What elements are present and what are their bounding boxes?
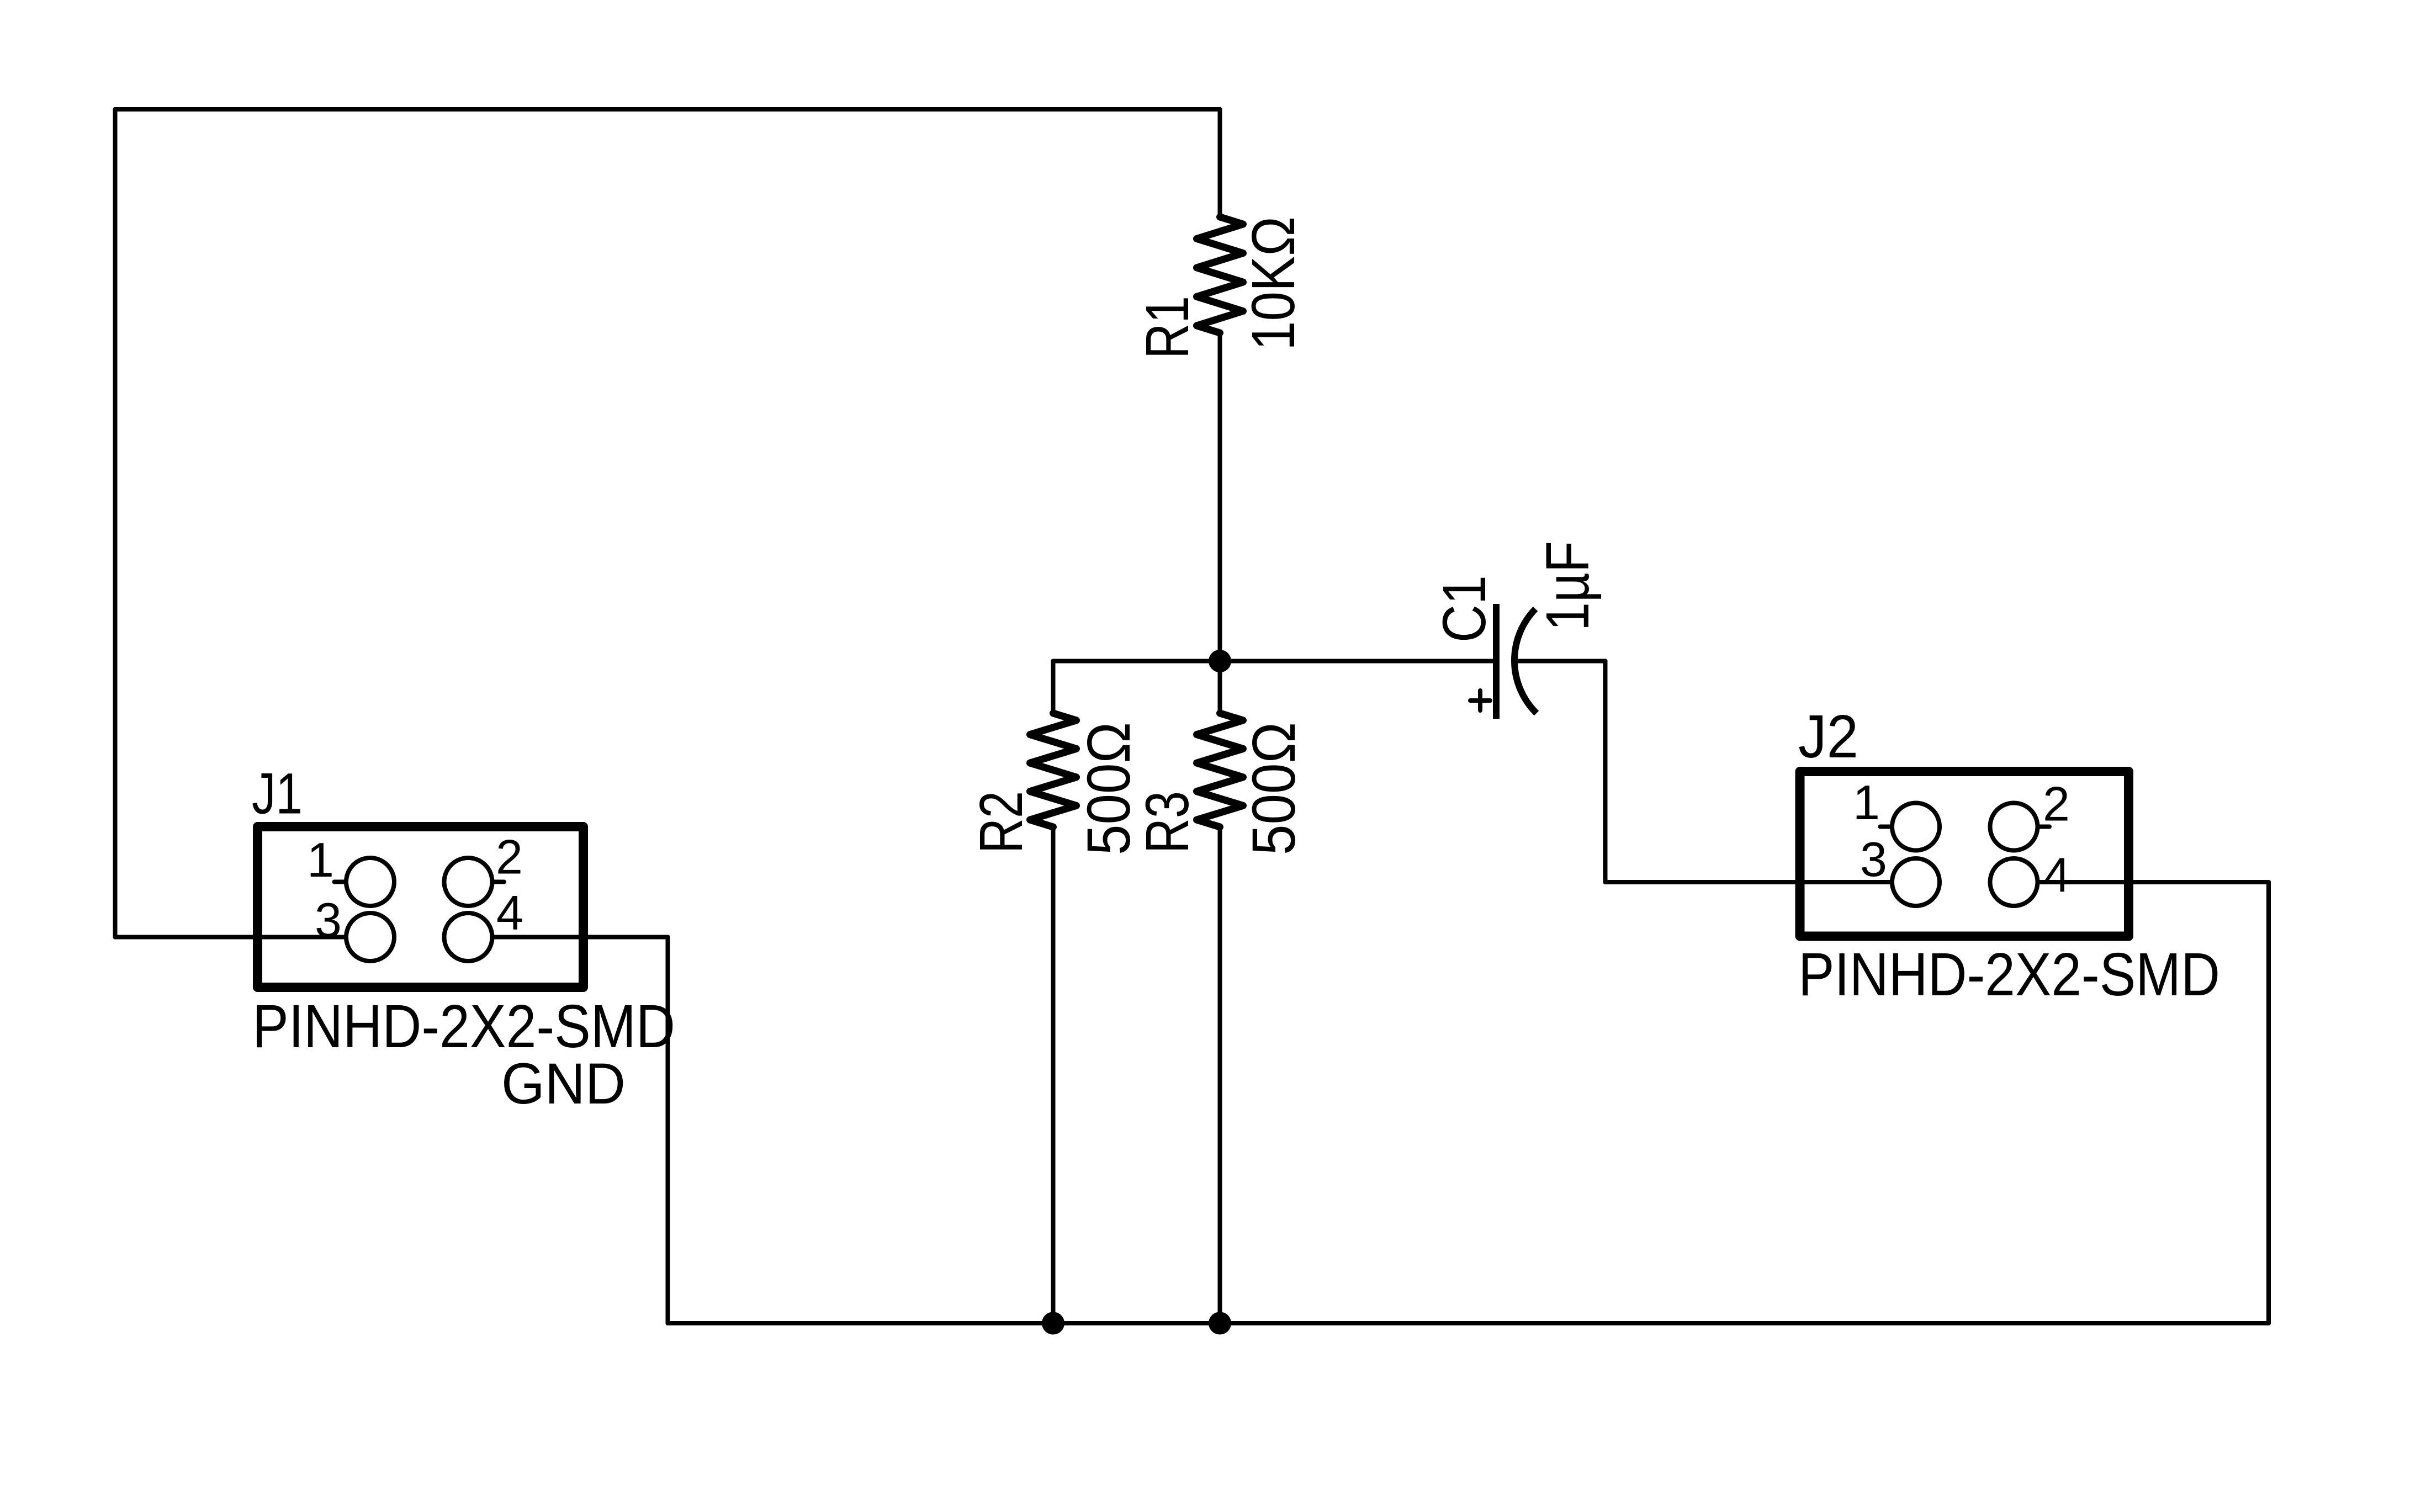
wire into J1 pin 3 — [115, 935, 347, 940]
svg-text:10KΩ: 10KΩ — [1239, 216, 1307, 351]
J2 pin 1 circle — [1892, 803, 1940, 851]
J1 pin 2 stub — [492, 880, 505, 884]
svg-text:500Ω: 500Ω — [1075, 722, 1143, 855]
wire J1 pin4 vertical down — [666, 937, 670, 1324]
capacitor C1 curved plate — [1514, 609, 1537, 713]
connector J1 body — [258, 827, 584, 988]
J1 pin 2 circle — [444, 858, 492, 906]
svg-text:2: 2 — [2043, 777, 2070, 831]
J1 pin 1 stub — [335, 880, 347, 884]
svg-text:PINHD-2X2-SMD: PINHD-2X2-SMD — [1798, 941, 2220, 1009]
svg-text:1: 1 — [1853, 775, 1880, 830]
svg-text:R1: R1 — [1133, 296, 1201, 359]
wire R2 top lead — [1051, 661, 1056, 714]
svg-text:4: 4 — [2043, 848, 2070, 903]
svg-text:PINHD-2X2-SMD: PINHD-2X2-SMD — [252, 993, 675, 1060]
J2 pin 3 circle — [1892, 858, 1940, 906]
wire down from C1 to J2 pin3 row — [1603, 661, 1608, 883]
wire R2 bottom lead — [1051, 827, 1056, 1323]
J1 pin 4 circle — [444, 913, 492, 961]
J2 pin 1 stub — [1880, 825, 1893, 829]
svg-text:J2: J2 — [1798, 703, 1858, 771]
resistor R3 zigzag — [1197, 713, 1243, 827]
svg-text:R3: R3 — [1133, 791, 1201, 853]
svg-text:1: 1 — [307, 832, 334, 887]
J2 pin 2 circle — [1990, 803, 2038, 851]
junction dot R3 / bottom net — [1209, 1312, 1231, 1335]
J2 pin 4 circle — [1990, 858, 2038, 906]
svg-text:500Ω: 500Ω — [1240, 722, 1308, 855]
wire R3 bottom lead — [1218, 827, 1222, 1323]
svg-text:3: 3 — [315, 893, 342, 947]
connector J2 body — [1800, 772, 2129, 937]
junction dot R2 / bottom net — [1042, 1312, 1064, 1335]
wire R1 bottom lead to node — [1218, 333, 1222, 661]
J1 pin 1 circle — [346, 858, 394, 906]
wire R3 top lead — [1218, 661, 1222, 714]
wire R1 top lead — [1218, 109, 1222, 217]
resistor R1 zigzag — [1197, 217, 1243, 333]
wire from J1 pin 4 — [492, 935, 668, 940]
svg-text:4: 4 — [496, 885, 523, 940]
junction dot at node A (R1/R3/C1) — [1209, 650, 1231, 672]
svg-text:J1: J1 — [252, 762, 303, 826]
wire bottom horizontal — [668, 1321, 2269, 1325]
wire C1 right side — [1517, 659, 1606, 664]
svg-text:1µF: 1µF — [1534, 541, 1602, 631]
resistor R2 zigzag — [1030, 713, 1077, 827]
wire right vertical — [2266, 882, 2271, 1323]
wire node horizontal to C1 — [1053, 659, 1496, 664]
C1 plus sign — [1470, 691, 1490, 710]
wire top horizontal from left corner to R1 top — [115, 107, 1220, 112]
J2 pin 2 stub — [2038, 825, 2050, 829]
svg-text:2: 2 — [496, 830, 523, 884]
wire into J2 pin 3 — [1606, 880, 1893, 884]
J1 pin 3 circle — [346, 913, 394, 961]
wire left vertical down to J1 pin3 row — [113, 109, 118, 937]
svg-text:3: 3 — [1860, 832, 1887, 887]
wire from J2 pin 4 — [2038, 880, 2269, 884]
svg-text:C1: C1 — [1431, 575, 1498, 643]
capacitor C1 left plate — [1493, 604, 1500, 719]
svg-text:GND: GND — [501, 1052, 626, 1116]
svg-text:R2: R2 — [967, 791, 1035, 853]
